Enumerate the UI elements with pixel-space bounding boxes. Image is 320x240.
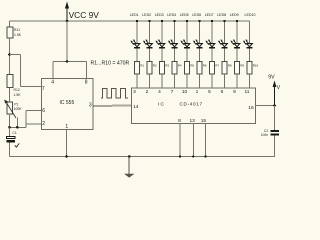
svg-text:2: 2 (146, 89, 149, 95)
wire 555 pin 1 to ground (66, 130, 68, 157)
svg-text:LED2: LED2 (142, 13, 151, 17)
capacitor C2 100n (261, 129, 279, 137)
svg-text:LED1: LED1 (130, 13, 139, 17)
svg-text:11: 11 (245, 89, 250, 95)
svg-text:IC 555: IC 555 (60, 100, 75, 106)
wire R3 to 4017 pin 4 (161, 74, 163, 88)
wire R1 to 4017 pin 3 (136, 74, 138, 88)
node rail junction LED8 (223, 20, 225, 22)
svg-text:14: 14 (133, 104, 139, 110)
wire LED10 cathode to R10 (249, 48, 251, 61)
svg-text:LED10: LED10 (245, 13, 256, 17)
wire 555 pin4-pin8 bridge (53, 60, 87, 62)
svg-text:V: V (277, 85, 280, 91)
wire C1 to ground rail (9, 142, 11, 156)
wire R11 to R12 (9, 38, 11, 75)
wire LED8 anode column (224, 21, 226, 44)
node rail junction LED4 (173, 20, 175, 22)
wire LED3 anode column (161, 21, 163, 44)
resistor R5 (185, 62, 195, 75)
svg-text:2: 2 (42, 121, 45, 127)
node rail junction LED9 (236, 20, 238, 22)
wire LED5 cathode to R5 (186, 48, 188, 61)
wire P1 wiper drop (16, 117, 18, 127)
LED LED1 (130, 40, 140, 48)
svg-text:LED5: LED5 (180, 13, 189, 17)
wire LED10 anode column (249, 21, 251, 44)
wire pin 2 connection (26, 123, 42, 125)
wire LED2 cathode to R2 (149, 48, 151, 61)
LED LED8 (218, 40, 228, 48)
wire R2 to 4017 pin 2 (149, 74, 151, 88)
wire LED9 cathode to R9 (236, 48, 238, 61)
node bridge junction (66, 60, 69, 63)
node VCC 9V supply arrow (65, 2, 69, 23)
svg-text:R1: R1 (140, 64, 144, 68)
resistor R3 (160, 62, 170, 75)
wire LED4 cathode to R4 (174, 48, 176, 61)
svg-text:R9: R9 (240, 64, 244, 68)
wire R8 to 4017 pin 6 (224, 74, 226, 88)
node rail junction LED2 (148, 20, 150, 22)
wire LED8 cathode to R8 (224, 48, 226, 61)
svg-text:7: 7 (171, 89, 174, 95)
wire R9 to 4017 pin 9 (236, 74, 238, 88)
svg-text:1: 1 (196, 89, 199, 95)
svg-text:100n: 100n (261, 133, 268, 137)
svg-text:1.5K: 1.5K (14, 93, 22, 97)
wire R5 to 4017 pin 10 (186, 74, 188, 88)
svg-text:4: 4 (51, 79, 54, 85)
wire 4017 pin 15 to ground (205, 124, 207, 157)
svg-text:9: 9 (233, 89, 236, 95)
wire R6 to 4017 pin 1 (199, 74, 201, 88)
svg-text:3: 3 (89, 103, 92, 109)
resistor R1 (135, 62, 145, 75)
resistor R11 (7, 27, 22, 38)
wire junction B horizontal (10, 126, 27, 128)
svg-text:1: 1 (65, 124, 68, 130)
potentiometer P1 100K (4, 100, 22, 118)
node junction A (R11/R12/pin7) (8, 53, 11, 56)
LED LED5 (180, 40, 190, 48)
LED LED9 (230, 40, 240, 48)
wire LED7 cathode to R7 (211, 48, 213, 61)
svg-text:LED9: LED9 (230, 13, 239, 17)
svg-text:R5: R5 (190, 64, 194, 68)
svg-text:R10: R10 (253, 64, 259, 68)
LED LED3 (155, 40, 165, 48)
svg-text:LED4: LED4 (167, 13, 176, 17)
svg-text:R7: R7 (215, 64, 219, 68)
counter IC CD4017 (U2) (132, 88, 256, 124)
wire LED3 cathode to R3 (161, 48, 163, 61)
wire C2 to ground rail (274, 135, 276, 156)
svg-text:13: 13 (190, 118, 196, 124)
wire pin 6 connection (26, 109, 42, 111)
svg-text:3: 3 (133, 89, 136, 95)
LED LED2 (143, 40, 153, 48)
node rail junction LED3 (161, 20, 163, 22)
svg-text:R3: R3 (165, 64, 169, 68)
svg-text:CD-4017: CD-4017 (180, 102, 203, 107)
resistor R9 (235, 62, 245, 75)
svg-text:6: 6 (42, 108, 45, 114)
wire LED1 anode column (136, 21, 138, 44)
svg-text:R8: R8 (228, 64, 232, 68)
LED LED10 (243, 40, 253, 48)
svg-text:6: 6 (221, 89, 224, 95)
op-amp / timer IC 555 (U1) (42, 78, 94, 129)
node rail junction LED5 (186, 20, 188, 22)
resistor R2 (147, 62, 157, 75)
wire LED5 anode column (186, 21, 188, 44)
svg-text:8: 8 (85, 79, 88, 85)
svg-text:R4: R4 (178, 64, 182, 68)
wire junction A to pin 7 (10, 54, 21, 56)
LED LED7 (205, 40, 215, 48)
svg-text:10: 10 (182, 89, 188, 95)
LED LED4 (168, 40, 178, 48)
node rail junction LED6 (198, 20, 200, 22)
svg-text:LED8: LED8 (217, 13, 226, 17)
wire 4017 pin 16 to 9V (256, 105, 275, 107)
wire VCC stem to 555 supply bridge (66, 21, 68, 61)
wire P1 bottom lead (9, 114, 11, 127)
node ground rail junction (128, 155, 131, 158)
wire LED1 cathode to R1 (136, 48, 138, 61)
wire LED6 cathode to R6 (199, 48, 201, 61)
wire R4 to 4017 pin 7 (174, 74, 176, 88)
svg-text:R1...R10 = 470R: R1...R10 = 470R (91, 61, 130, 67)
resistor R7 (210, 62, 220, 75)
wire 4017 pin 13 to ground (192, 124, 194, 157)
svg-text:15: 15 (201, 118, 207, 124)
wire R12 to P1 (9, 88, 11, 103)
svg-text:4: 4 (158, 89, 161, 95)
wire pin6-pin2-junctionB vertical (25, 110, 27, 127)
wire top-left corner drop (9, 21, 11, 27)
resistor R12 (7, 75, 21, 98)
svg-text:R12: R12 (14, 88, 20, 92)
svg-text:LED7: LED7 (205, 13, 214, 17)
svg-text:5: 5 (208, 89, 211, 95)
wire ground bottom rail (10, 156, 276, 158)
wire VCC top rail (10, 20, 250, 22)
svg-text:C1: C1 (12, 131, 16, 135)
svg-text:9V: 9V (268, 75, 275, 81)
wire junction B to C1 (9, 127, 11, 136)
wire 555 pin3 to 4017 pin14 (93, 105, 113, 107)
svg-text:VCC 9V: VCC 9V (69, 10, 100, 20)
wire R7 to 4017 pin 5 (211, 74, 213, 88)
waveform square-wave symbol (101, 89, 128, 99)
resistor R8 (222, 62, 232, 75)
wire LED6 anode column (199, 21, 201, 44)
ground (124, 157, 134, 178)
resistor R4 (172, 62, 182, 75)
svg-text:LED6: LED6 (192, 13, 201, 17)
wire LED2 anode column (149, 21, 151, 44)
wire R10 to 4017 pin 11 (249, 74, 251, 88)
node junction B dots (8, 126, 11, 129)
resistor R6 (197, 62, 207, 75)
svg-text:100K: 100K (14, 107, 23, 111)
node rail junction LED7 (211, 20, 213, 22)
wire LED9 anode column (236, 21, 238, 44)
svg-text:IC: IC (158, 102, 165, 108)
svg-text:1.5K: 1.5K (14, 33, 22, 37)
svg-text:LED3: LED3 (155, 13, 164, 17)
wire 4017 pin 8 to ground (179, 124, 181, 157)
wire LED7 anode column (211, 21, 213, 44)
svg-text:7: 7 (42, 86, 45, 92)
wire LED4 anode column (174, 21, 176, 44)
capacitor C1 (electrolytic) (6, 131, 19, 147)
node rail junction LED1 (136, 20, 138, 22)
node 9V supply arrow (right) (273, 81, 277, 106)
LED LED6 (193, 40, 203, 48)
resistor R10 (247, 62, 259, 75)
svg-text:8: 8 (178, 118, 181, 124)
svg-text:R2: R2 (153, 64, 157, 68)
wire 9V to C2 (274, 106, 276, 131)
svg-text:16: 16 (248, 105, 254, 111)
svg-text:R6: R6 (203, 64, 207, 68)
svg-text:R11: R11 (14, 28, 20, 32)
